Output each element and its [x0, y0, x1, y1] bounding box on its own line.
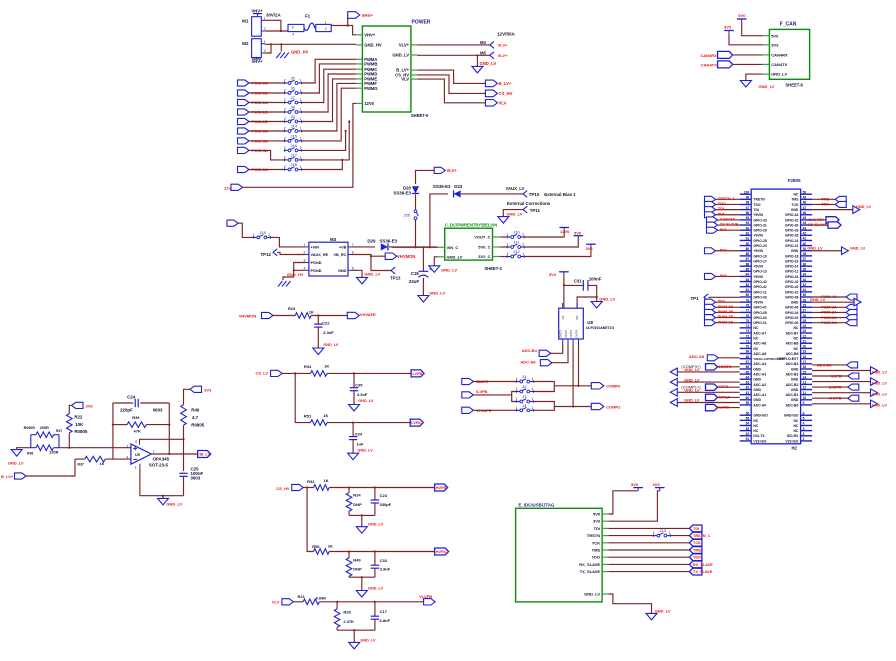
svg-text:R40: R40: [191, 408, 200, 413]
svg-text:HVFB: HVFB: [718, 385, 729, 389]
wire 3V3 fcan: [729, 34, 763, 45]
svg-text:TDI: TDI: [693, 527, 699, 531]
test point TP1: [691, 294, 740, 301]
svg-text:GPIO-13: GPIO-13: [753, 270, 766, 274]
svg-text:47K: 47K: [134, 429, 141, 434]
wire: [609, 542, 690, 544]
module M3: [304, 237, 354, 276]
svg-text:46: 46: [803, 211, 807, 215]
svg-text:1: 1: [507, 233, 509, 237]
svg-text:GND_LV: GND_LV: [759, 84, 775, 89]
port VLV: [485, 100, 506, 107]
svg-text:TDO: TDO: [592, 555, 600, 560]
svg-text:3V3: 3V3: [586, 246, 594, 251]
port TDI ebox: [689, 525, 702, 532]
svg-text:GND_LV: GND_LV: [507, 212, 523, 217]
svg-text:25: 25: [803, 319, 807, 323]
svg-text:R49: R49: [353, 557, 361, 562]
svg-text:2: 2: [284, 108, 286, 112]
jumper J5: [284, 76, 302, 85]
svg-text:27: 27: [803, 309, 807, 313]
port PWM-0A conn: [812, 320, 857, 326]
capacitor C17: [371, 602, 391, 630]
svg-text:ADC-B4: ADC-B4: [786, 362, 799, 366]
port LVFB: [411, 370, 424, 377]
svg-text:2: 2: [284, 146, 286, 150]
resistor R24: [346, 488, 362, 516]
svg-text:HVFB: HVFB: [436, 486, 447, 490]
svg-text:R28: R28: [343, 610, 351, 615]
svg-text:21: 21: [803, 339, 807, 343]
svg-text:R22: R22: [74, 414, 83, 419]
svg-text:1: 1: [668, 531, 670, 535]
svg-text:1: 1: [300, 165, 302, 169]
svg-text:GND: GND: [791, 398, 799, 402]
svg-text:33: 33: [803, 278, 807, 282]
port VLVAFE: [462, 407, 492, 413]
port CAN4RX conn: [808, 217, 839, 223]
svg-text:5V0: 5V0: [738, 13, 746, 18]
svg-text:GPIO-33: GPIO-33: [753, 218, 766, 222]
svg-text:GPIO-29: GPIO-29: [753, 229, 766, 233]
resistor R50: [312, 544, 333, 555]
svg-text:GND_LV: GND_LV: [684, 368, 700, 372]
svg-text:88: 88: [746, 252, 750, 256]
port TDO ebox: [689, 554, 702, 561]
svg-text:R37: R37: [78, 462, 84, 466]
svg-text:5V0: 5V0: [771, 33, 779, 38]
svg-text:GPIO-40: GPIO-40: [785, 285, 798, 289]
svg-text:1: 1: [516, 377, 518, 381]
svg-text:B_LV+: B_LV+: [499, 81, 512, 86]
svg-text:GND: GND: [791, 301, 799, 305]
wire ADC-B4: [551, 345, 563, 354]
port ILVFB conn: [812, 373, 859, 379]
svg-text:GPIO-07: GPIO-07: [753, 306, 766, 310]
wire 3V3 ebox: [609, 491, 660, 521]
svg-text:R51: R51: [304, 413, 312, 418]
jumper J8: [284, 105, 302, 114]
svg-text:NC: NC: [753, 347, 758, 351]
ground GND_LV C35: [349, 399, 374, 411]
svg-text:GND_LV: GND_LV: [856, 205, 872, 209]
wire: [609, 535, 654, 537]
port ADC-B4 u8: [522, 348, 551, 356]
svg-text:GPIO-28: GPIO-28: [785, 229, 798, 233]
svg-text:5V0: 5V0: [593, 512, 601, 517]
svg-text:VHVMON: VHVMON: [397, 254, 415, 259]
svg-text:PWM-0B: PWM-0B: [718, 305, 734, 309]
port PWM-2B: [238, 118, 268, 124]
port PWM-3B: [238, 138, 268, 144]
jumper J12: [507, 249, 525, 258]
svg-text:93: 93: [746, 226, 750, 230]
svg-text:CAN4RX: CAN4RX: [771, 53, 788, 58]
svg-text:SOT-23-5: SOT-23-5: [149, 462, 169, 467]
svg-text:GND_LV: GND_LV: [358, 399, 374, 403]
jumper J9: [284, 114, 302, 123]
svg-text:20: 20: [803, 345, 807, 349]
svg-text:66: 66: [746, 365, 750, 369]
svg-text:83: 83: [746, 278, 750, 282]
port TX-SLAVE: [707, 222, 740, 228]
svg-text:OUT3: OUT3: [569, 330, 573, 338]
svg-text:42: 42: [803, 232, 807, 236]
svg-text:GND: GND: [791, 208, 799, 212]
wire pwm riser: [302, 74, 357, 112]
svg-text:TMS: TMS: [592, 548, 601, 553]
svg-text:OPA345: OPA345: [153, 457, 170, 462]
svg-text:1: 1: [300, 155, 302, 159]
test point M4: [480, 40, 508, 48]
ground GND_LV left arrow: [670, 389, 739, 397]
ground GND_LV right: [812, 378, 887, 386]
svg-text:J10: J10: [513, 230, 520, 235]
wire R28C17 rail: [337, 629, 375, 642]
svg-text:POWER: POWER: [412, 20, 431, 26]
svg-text:GND_LV: GND_LV: [392, 53, 409, 58]
svg-text:TCK: TCK: [791, 203, 799, 207]
svg-text:ULP2010ANET1G: ULP2010ANET1G: [586, 326, 614, 330]
wire pwm riser: [302, 64, 357, 93]
svg-text:2: 2: [284, 98, 286, 102]
jumper J20: [404, 210, 419, 220]
wire J12 to 3V3: [524, 247, 591, 256]
svg-text:37: 37: [803, 257, 807, 261]
port B_LV+: [485, 80, 511, 87]
wire pwm riser: [302, 59, 357, 83]
port PWM-3A conn: [812, 304, 857, 310]
svg-text:ADC-A0: ADC-A0: [753, 403, 766, 407]
wire pwm riser: [302, 83, 357, 131]
wire VB_RC to VHVMON: [352, 255, 386, 258]
svg-text:VLVFB: VLVFB: [717, 406, 729, 410]
svg-text:2: 2: [268, 233, 270, 237]
ground GND_LV fcan: [740, 81, 774, 90]
svg-text:GPIO-01: GPIO-01: [753, 321, 766, 325]
port RX_SLAVE ebox: [689, 561, 713, 568]
svg-text:PWM-1B: PWM-1B: [718, 320, 734, 324]
svg-text:IB_LV: IB_LV: [200, 453, 211, 457]
power flag VHV+: [252, 8, 264, 16]
svg-text:GPIO-22: GPIO-22: [785, 244, 798, 248]
capacitor C24: [113, 395, 169, 413]
port PWM-0B: [705, 304, 740, 310]
wire: [609, 549, 690, 551]
svg-text:+5VIN: +5VIN: [753, 301, 763, 305]
wire pwm riser: [302, 69, 357, 102]
svg-text:TP13: TP13: [390, 275, 401, 280]
svg-text:44: 44: [803, 221, 807, 225]
svg-text:NC: NC: [793, 429, 798, 433]
svg-text:M3: M3: [330, 237, 337, 242]
port TCK ebox: [689, 539, 702, 546]
port COMP0: [591, 383, 621, 389]
svg-text:1K: 1K: [323, 413, 328, 418]
port ILVFB u8: [462, 389, 488, 398]
svg-text:TDI: TDI: [594, 526, 600, 531]
wire J1 out: [533, 382, 554, 386]
svg-text:62: 62: [746, 386, 750, 390]
ground GND_LV right: [812, 389, 887, 397]
wire +VB to D29: [352, 246, 376, 248]
svg-text:1K: 1K: [100, 462, 105, 466]
svg-text:40: 40: [803, 242, 807, 246]
svg-text:53: 53: [746, 427, 750, 431]
jumper J6: [284, 86, 302, 95]
wire D23 to TP10: [461, 193, 523, 195]
svg-text:220pF: 220pF: [120, 408, 133, 413]
svg-text:1: 1: [516, 387, 518, 391]
wire: [249, 92, 285, 94]
wire: [249, 140, 285, 142]
svg-text:1: 1: [507, 243, 509, 247]
wire CS_HV out: [417, 75, 485, 94]
svg-text:GND_LV: GND_LV: [872, 404, 888, 408]
wire R34 out: [327, 372, 411, 374]
wire nodeA: [112, 403, 114, 459]
wire C31 to gnd: [588, 285, 597, 301]
svg-text:GND_LV: GND_LV: [166, 501, 182, 506]
port CS_LV: [256, 370, 283, 376]
svg-text:J12: J12: [513, 249, 520, 254]
svg-text:1: 1: [803, 437, 805, 441]
svg-text:TRSTN_1: TRSTN_1: [718, 197, 735, 201]
resistor R21: [298, 594, 327, 605]
svg-text:ADC-B8: ADC-B8: [786, 352, 799, 356]
svg-text:PGND: PGND: [311, 261, 322, 265]
svg-text:2: 2: [507, 252, 509, 256]
svg-text:ADC-A4: ADC-A4: [753, 362, 766, 366]
svg-text:GND: GND: [791, 367, 799, 371]
wire 3V3 to R40: [184, 389, 191, 404]
svg-text:C31: C31: [574, 278, 583, 283]
wire R22 bottom: [68, 433, 70, 448]
svg-text:R50: R50: [312, 544, 320, 549]
wire: [609, 563, 690, 565]
svg-text:OUT2: OUT2: [564, 330, 568, 338]
wire M1 to fuse: [265, 20, 288, 32]
svg-text:GPIO-32: GPIO-32: [785, 218, 798, 222]
power 5V0 fcan: [737, 13, 747, 22]
svg-text:2.37K: 2.37K: [343, 619, 354, 624]
wire ADC-A8: [552, 345, 568, 363]
svg-text:1: 1: [300, 127, 302, 131]
svg-text:10: 10: [803, 396, 807, 400]
svg-text:VHV+: VHV+: [252, 59, 264, 64]
svg-text:ADC-B7: ADC-B7: [786, 331, 799, 335]
svg-text:1K: 1K: [324, 364, 329, 369]
svg-text:ADC-B3: ADC-B3: [786, 373, 799, 377]
resistor R47 200R: [24, 426, 63, 438]
svg-text:GND_LV: GND_LV: [850, 247, 866, 251]
svg-text:CAN4TX: CAN4TX: [701, 63, 717, 68]
jumper J4: [516, 403, 534, 412]
svg-text:36: 36: [803, 262, 807, 266]
capacitor C23: [371, 488, 392, 516]
svg-text:TDI: TDI: [718, 207, 724, 211]
jumper J16: [284, 143, 302, 152]
svg-text:VLV: VLV: [499, 101, 507, 106]
wire GND_LV to M5: [417, 54, 490, 66]
ground GND_LV M3: [357, 272, 381, 284]
svg-text:GPIO-12: GPIO-12: [785, 270, 798, 274]
svg-text:1: 1: [653, 531, 655, 535]
svg-text:86: 86: [746, 262, 750, 266]
svg-text:GND_LV: GND_LV: [368, 587, 384, 591]
diode D20: [393, 186, 419, 196]
port HVFILT conn: [706, 394, 740, 400]
svg-text:VHV+: VHV+: [362, 13, 374, 18]
port HVFILT: [435, 548, 450, 555]
svg-text:94: 94: [746, 221, 750, 225]
svg-text:R24: R24: [353, 493, 361, 498]
svg-text:TRSTN_1: TRSTN_1: [693, 534, 710, 538]
svg-text:R0805: R0805: [74, 429, 87, 434]
svg-text:GND: GND: [753, 388, 761, 392]
svg-text:220R: 220R: [49, 450, 58, 454]
ground GND_LV row4: [812, 205, 871, 214]
svg-text:J17: J17: [291, 153, 298, 158]
resistor R51: [304, 413, 329, 426]
ground GND_LV left arrow: [670, 368, 739, 376]
power 3V3 fcan: [724, 25, 734, 34]
svg-text:TP12: TP12: [261, 252, 272, 257]
svg-text:SHEET-6: SHEET-6: [785, 82, 803, 87]
jumper J13: [653, 528, 671, 537]
svg-text:59: 59: [746, 401, 750, 405]
svg-text:VN: VN: [575, 316, 579, 320]
svg-text:1: 1: [300, 117, 302, 121]
svg-text:ADC-B6: ADC-B6: [786, 342, 799, 346]
svg-text:91: 91: [746, 237, 750, 241]
svg-text:3V3: 3V3: [549, 272, 557, 277]
port PWM-1B: [238, 109, 268, 115]
power 3V3 J12: [586, 244, 596, 251]
svg-text:79: 79: [746, 298, 750, 302]
svg-text:2: 2: [284, 165, 286, 169]
wire J20 to node: [414, 220, 416, 249]
svg-text:5V0: 5V0: [718, 300, 725, 304]
svg-text:VLV+: VLV+: [399, 43, 410, 48]
svg-text:R23: R23: [288, 306, 296, 311]
resistor R22: [67, 414, 88, 435]
svg-text:GND: GND: [753, 398, 761, 402]
jumper J17: [284, 153, 302, 162]
label VAUX_LV: [506, 186, 525, 191]
svg-text:3.3nF: 3.3nF: [380, 567, 391, 572]
svg-text:GPIO-03: GPIO-03: [753, 316, 766, 320]
svg-text:SS36-E3: SS36-E3: [433, 184, 451, 189]
svg-text:GND_LV: GND_LV: [358, 448, 374, 452]
svg-text:GND_LV: GND_LV: [872, 370, 888, 374]
ground GND_LV R24: [356, 523, 383, 534]
svg-text:TCK: TCK: [592, 540, 600, 545]
svg-text:ADC-A2: ADC-A2: [753, 383, 766, 387]
wire D20 to J20: [415, 194, 417, 209]
svg-text:GND_LV: GND_LV: [364, 272, 380, 277]
wire nodeB: [168, 403, 170, 455]
svg-text:98: 98: [746, 201, 750, 205]
svg-text:NC: NC: [753, 429, 758, 433]
svg-text:1K: 1K: [309, 310, 314, 315]
svg-text:GPIO-44: GPIO-44: [785, 275, 798, 279]
port VHVMON: [385, 253, 415, 259]
jumper J15: [284, 134, 302, 143]
svg-text:TDI: TDI: [753, 208, 759, 212]
svg-text:4: 4: [803, 422, 805, 426]
wire J2 out: [533, 386, 554, 392]
svg-text:1: 1: [153, 450, 155, 454]
svg-text:ADC-B2: ADC-B2: [786, 383, 799, 387]
svg-text:GPIO-34: GPIO-34: [785, 213, 798, 217]
svg-text:R32: R32: [307, 479, 315, 484]
svg-text:R39: R39: [132, 415, 140, 420]
wire GND_LV C_DC: [434, 257, 437, 266]
label 30V/2A: [266, 13, 281, 18]
wire pwm riser: [302, 88, 357, 141]
port 5V0: [705, 299, 740, 305]
port 5V0: [705, 212, 740, 218]
svg-text:NC: NC: [753, 424, 758, 428]
svg-text:69: 69: [746, 350, 750, 354]
op-amp U5: [127, 440, 155, 470]
wire R24C23 rail: [349, 514, 375, 526]
ground GND_LV row22: [810, 298, 861, 306]
svg-text:2: 2: [284, 79, 286, 83]
port COMP2: [591, 403, 621, 409]
svg-text:GND_LV: GND_LV: [684, 399, 700, 403]
svg-text:GND_LV: GND_LV: [810, 298, 826, 302]
svg-text:GPIO-09: GPIO-09: [753, 295, 766, 299]
wire: [670, 535, 689, 537]
port VHVMON in: [239, 312, 273, 318]
svg-text:TX_SLAVE: TX_SLAVE: [580, 569, 601, 574]
svg-text:NC: NC: [793, 326, 798, 330]
svg-text:3V2_C: 3V2_C: [478, 254, 490, 259]
label 12V/50A: [497, 32, 516, 37]
svg-text:NC: NC: [793, 419, 798, 423]
svg-text:M5: M5: [480, 51, 486, 56]
svg-text:2: 2: [135, 466, 137, 470]
svg-text:18: 18: [803, 355, 807, 359]
wire R51 out: [327, 422, 410, 424]
svg-text:61: 61: [746, 391, 750, 395]
svg-text:R47: R47: [56, 429, 62, 433]
port 5V0 row12: [705, 248, 740, 254]
svg-text:J14: J14: [291, 124, 298, 129]
power flag VHV+ below M2: [252, 58, 264, 65]
svg-text:PWMB: PWMB: [364, 62, 377, 67]
svg-text:GND_LV: GND_LV: [429, 291, 445, 296]
svg-text:GND_LV: GND_LV: [771, 72, 787, 77]
svg-text:DNP: DNP: [353, 502, 362, 507]
svg-text:65: 65: [746, 370, 750, 374]
wire R40 to out: [183, 425, 185, 471]
wire R32 out: [329, 486, 434, 488]
svg-text:29: 29: [803, 298, 807, 302]
power 5V0: [574, 231, 584, 239]
resistor R23: [288, 306, 314, 318]
svg-text:NC: NC: [753, 337, 758, 341]
svg-text:GND_LV: GND_LV: [368, 523, 384, 527]
svg-text:ADC-A6: ADC-A6: [753, 342, 766, 346]
svg-text:GND_HV: GND_HV: [364, 43, 382, 48]
diode D29: [367, 239, 397, 251]
svg-text:CAN4TX: CAN4TX: [720, 218, 736, 222]
svg-text:22uF: 22uF: [409, 279, 420, 284]
ground GND_LV R28: [349, 639, 376, 649]
